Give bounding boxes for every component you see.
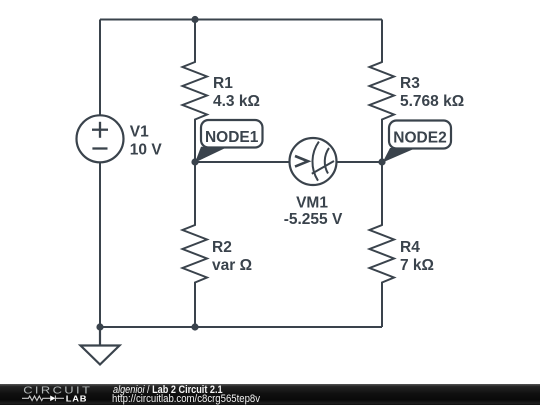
svg-text:5.768 kΩ: 5.768 kΩ [400, 93, 464, 110]
R4 value label [400, 239, 434, 274]
svg-text:-5.255 V: -5.255 V [284, 211, 343, 228]
svg-text:VM1: VM1 [296, 195, 328, 212]
svg-text:V1: V1 [130, 123, 149, 140]
R3 value label [400, 75, 464, 110]
svg-text:R1: R1 [213, 75, 233, 92]
wire left branch upper (top rail to V1) [99, 20, 101, 116]
resistor R2 [183, 162, 208, 327]
CircuitLab logo [0, 384, 100, 405]
resistor R4 [370, 162, 395, 327]
wire middle right (VM1 to NODE2) [337, 161, 383, 163]
voltmeter VM1 [290, 138, 337, 185]
svg-text:R2: R2 [212, 239, 232, 256]
node label NODE1 [195, 120, 263, 163]
wire middle left (NODE1 to VM1) [195, 161, 290, 163]
wire left branch lower (V1 to bottom rail) [99, 162, 101, 327]
node bottom middle (R2/bottom rail) [191, 323, 198, 330]
svg-text:R4: R4 [400, 239, 420, 256]
wire bottom rail [100, 326, 382, 328]
node NODE2 junction [378, 158, 385, 165]
node label NODE2 [383, 121, 452, 163]
svg-text:4.3 kΩ: 4.3 kΩ [213, 93, 260, 110]
resistor R3 [370, 20, 395, 163]
resistor R1 [183, 20, 208, 163]
svg-text:var Ω: var Ω [212, 257, 252, 274]
voltage source V1 [77, 115, 124, 162]
footer bar [0, 384, 540, 405]
R2 value label [212, 239, 252, 274]
svg-text:NODE2: NODE2 [393, 130, 446, 147]
svg-text:7 kΩ: 7 kΩ [400, 257, 434, 274]
node NODE1 junction [191, 158, 198, 165]
node bottom left (ground) [96, 323, 103, 330]
svg-text:10 V: 10 V [130, 141, 163, 158]
R1 value label [213, 75, 260, 110]
svg-text:R3: R3 [400, 75, 420, 92]
V1 value label [130, 123, 163, 158]
ground [81, 327, 120, 365]
svg-text:NODE1: NODE1 [205, 129, 259, 146]
node junction top (R1/top rail) [191, 16, 198, 23]
VM1 value label [284, 195, 343, 229]
wire top rail [100, 19, 382, 21]
svg-text:LAB: LAB [66, 394, 88, 403]
